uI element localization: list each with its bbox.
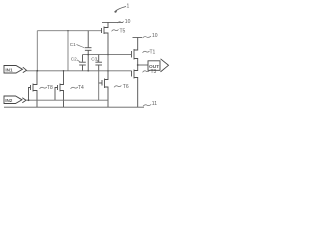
node dot C1 bottom: [87, 70, 89, 72]
node 10 squiggle lead (right): [143, 36, 152, 38]
node dot IN1/V1: [36, 70, 38, 72]
OUT flag: [148, 59, 169, 72]
wire H2 gate line (IN1 to T5 gate): [37, 30, 101, 32]
wire rail 11 bottom: [4, 106, 144, 108]
wire C3 column below bus to T4 gate and IN2 line: [98, 71, 100, 100]
wire OUT line: [138, 64, 148, 66]
node dot T4 drain column: [107, 70, 109, 72]
svg-text:1: 1: [127, 4, 130, 10]
svg-text:C2: C2: [71, 57, 77, 62]
transistor T3: [132, 65, 138, 107]
transistor T1: [132, 38, 138, 66]
node dot C1-H4: [87, 54, 89, 56]
svg-text:T1: T1: [150, 50, 156, 56]
transistor T4: [99, 71, 108, 107]
svg-text:T6: T6: [123, 84, 129, 90]
svg-text:IN1: IN1: [5, 68, 13, 73]
wire H7 IN2 line: [26, 99, 108, 101]
transistor T5: [102, 22, 109, 54]
wire rail 10 top (T5 drain rail): [102, 21, 123, 23]
svg-text:T4: T4: [78, 85, 84, 91]
transistor T6: [55, 71, 64, 107]
svg-text:T5: T5: [120, 29, 126, 35]
svg-text:C1: C1: [70, 42, 76, 47]
node dot IN2/T8 gate: [28, 99, 30, 101]
transistor T1 label: [143, 51, 150, 53]
svg-text:10: 10: [125, 19, 131, 25]
node dot T5source-H4: [107, 54, 109, 56]
svg-text:C3: C3: [91, 57, 97, 62]
transistor T5 label: [112, 29, 119, 31]
node 1 lead arrow: [115, 7, 127, 12]
wire T5 source column H4 to H5: [107, 55, 109, 71]
wire rail 10 right (T1 drain rail): [133, 37, 143, 39]
node 11 squiggle lead: [143, 104, 151, 106]
node 10 squiggle lead (top): [118, 22, 124, 24]
svg-text:11: 11: [152, 101, 157, 107]
svg-text:OUT: OUT: [149, 64, 159, 70]
transistor T4 label: [114, 86, 121, 88]
svg-text:IN2: IN2: [5, 98, 13, 103]
wire V2 x68 (gate line to IN1 bus): [67, 31, 69, 71]
wire H4 node line (C2 to T1 gate): [83, 54, 132, 56]
node dot OUT: [137, 64, 139, 66]
svg-text:T8: T8: [47, 85, 53, 91]
wire V1 (corner down to IN1 bus): [36, 31, 38, 71]
transistor T6 label: [71, 87, 78, 89]
transistor T8: [29, 71, 38, 107]
transistor T3 label: [143, 71, 150, 73]
capacitor C1: [85, 31, 92, 71]
transistor T8 label: [40, 87, 47, 89]
node dot T6 drain: [63, 70, 65, 72]
wire H5 IN1 bus: [27, 70, 132, 72]
IN2 flag: [4, 96, 26, 104]
node junction x68 top: [67, 30, 68, 31]
capacitor C2: [79, 55, 86, 71]
IN1 flag: [4, 66, 27, 74]
svg-text:10: 10: [152, 33, 158, 39]
capacitor C3: [95, 55, 102, 71]
